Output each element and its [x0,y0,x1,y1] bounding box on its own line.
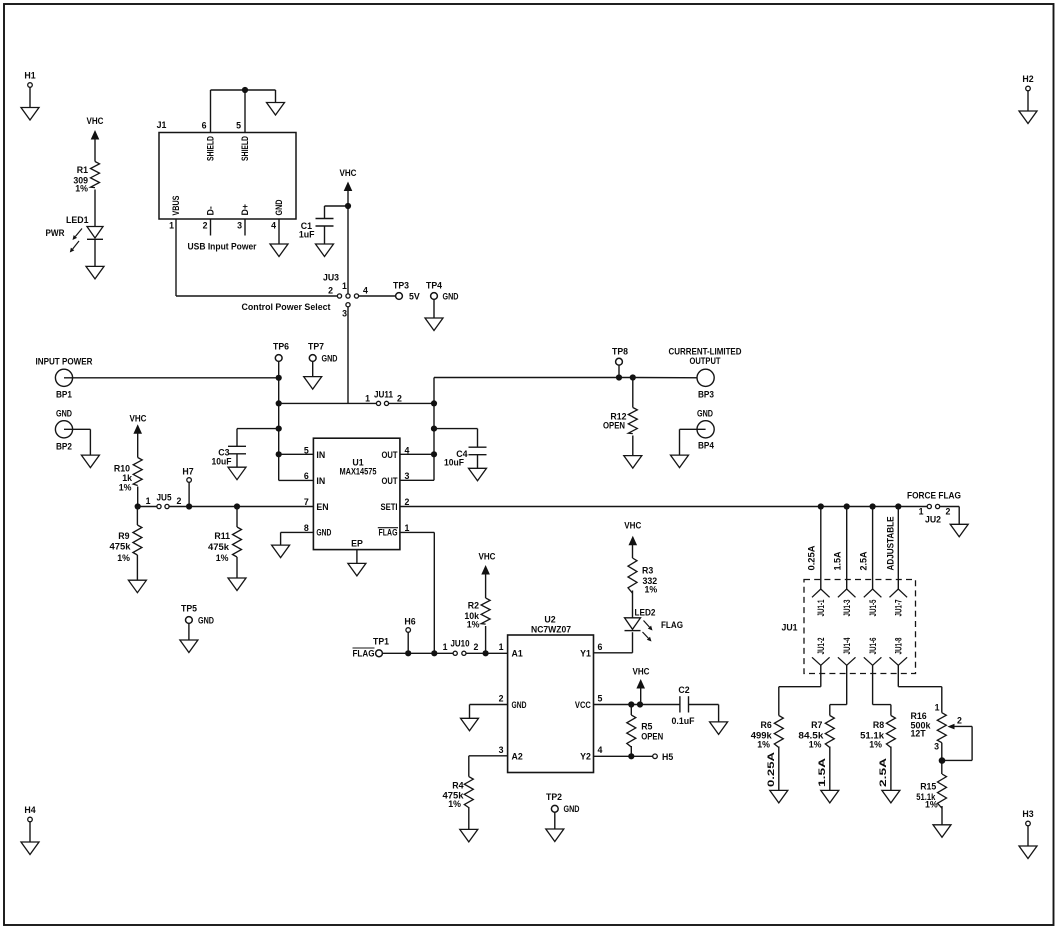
svg-text:0.1uF: 0.1uF [672,716,696,726]
svg-text:H1: H1 [24,71,35,81]
svg-text:TP8: TP8 [612,347,628,357]
svg-text:JU2: JU2 [925,515,941,525]
svg-text:3: 3 [405,471,410,481]
svg-text:H7: H7 [182,467,193,477]
svg-text:JU3: JU3 [323,273,339,283]
svg-text:GND: GND [443,292,459,302]
svg-text:FORCE FLAG: FORCE FLAG [907,491,961,501]
svg-text:H3: H3 [1022,809,1033,819]
svg-text:USB Input Power: USB Input Power [188,242,258,252]
svg-text:R3: R3 [642,566,653,576]
svg-text:JU1-6: JU1-6 [868,637,878,654]
svg-text:1: 1 [169,221,174,231]
svg-text:2: 2 [499,694,504,704]
svg-text:1%: 1% [75,184,88,194]
svg-text:1: 1 [365,394,370,404]
svg-text:OUT: OUT [382,450,399,460]
svg-text:CURRENT-LIMITED: CURRENT-LIMITED [669,347,742,357]
svg-text:2: 2 [397,394,402,404]
svg-text:BP2: BP2 [56,442,72,452]
svg-text:TP2: TP2 [546,792,562,802]
svg-text:SETI: SETI [381,502,398,512]
svg-text:JU1-4: JU1-4 [842,637,852,654]
svg-text:TP5: TP5 [181,604,197,614]
svg-text:1: 1 [342,281,347,291]
svg-text:1%: 1% [467,620,480,630]
svg-text:1.5A: 1.5A [817,757,827,787]
svg-text:FLAG: FLAG [353,649,375,659]
svg-text:VHC: VHC [479,552,497,562]
svg-text:GND: GND [274,200,284,216]
svg-text:2.5A: 2.5A [878,757,888,787]
svg-text:H6: H6 [404,617,415,627]
svg-text:R11: R11 [214,531,230,541]
svg-text:5: 5 [236,121,241,131]
svg-text:R10: R10 [114,464,130,474]
svg-text:1%: 1% [119,483,132,493]
svg-text:6: 6 [202,121,207,131]
svg-text:3: 3 [499,745,504,755]
svg-text:2: 2 [328,286,333,296]
svg-text:IN: IN [316,476,325,486]
svg-text:JU11: JU11 [374,390,393,400]
svg-text:INPUT POWER: INPUT POWER [36,357,94,367]
svg-text:C2: C2 [678,685,689,695]
svg-text:1: 1 [935,703,940,713]
svg-text:JU1-3: JU1-3 [842,599,852,616]
svg-text:5: 5 [598,694,603,704]
svg-text:1%: 1% [645,585,658,595]
svg-text:OUT: OUT [382,476,399,486]
svg-text:2: 2 [203,221,208,231]
svg-text:TP3: TP3 [393,281,409,291]
svg-text:2: 2 [957,716,962,726]
svg-text:JU1-1: JU1-1 [816,599,826,616]
svg-text:10uF: 10uF [212,457,233,467]
svg-text:1%: 1% [757,740,770,750]
svg-text:Y2: Y2 [580,751,591,761]
svg-text:1: 1 [919,507,924,517]
svg-text:OPEN: OPEN [603,421,625,431]
svg-text:JU1-5: JU1-5 [868,599,878,616]
svg-text:1%: 1% [809,740,822,750]
svg-text:1%: 1% [117,553,130,563]
svg-text:1: 1 [443,642,448,652]
svg-text:VHC: VHC [87,116,105,126]
svg-text:1: 1 [146,496,151,506]
svg-text:2.5A: 2.5A [859,551,869,571]
svg-text:12T: 12T [911,729,927,739]
svg-text:5V: 5V [409,292,420,302]
svg-text:10uF: 10uF [444,458,465,468]
svg-text:3: 3 [342,309,347,319]
svg-text:Y1: Y1 [580,649,591,659]
svg-text:VHC: VHC [633,667,651,677]
svg-text:BP3: BP3 [698,390,714,400]
svg-text:EN: EN [316,502,328,512]
svg-text:GND: GND [56,409,72,419]
svg-text:H2: H2 [1022,74,1033,84]
svg-text:1%: 1% [448,799,461,809]
svg-text:R7: R7 [811,720,822,730]
svg-text:VHC: VHC [340,168,358,178]
svg-text:GND: GND [316,528,331,538]
svg-text:VHC: VHC [624,521,642,531]
svg-text:0.25A: 0.25A [766,751,776,787]
svg-text:A2: A2 [512,751,523,761]
svg-text:R5: R5 [641,722,652,732]
svg-text:EP: EP [351,539,363,549]
svg-text:2: 2 [405,497,410,507]
svg-text:6: 6 [598,642,603,652]
svg-text:4: 4 [405,445,410,455]
svg-text:D+: D+ [240,204,250,216]
svg-text:R8: R8 [873,720,884,730]
svg-text:H4: H4 [24,805,35,815]
svg-text:LED1: LED1 [66,215,89,225]
svg-text:VBUS: VBUS [171,195,181,215]
svg-text:4: 4 [598,745,603,755]
svg-text:R15: R15 [920,782,936,792]
svg-text:JU10: JU10 [451,639,470,649]
svg-text:1%: 1% [869,740,882,750]
svg-text:R16: R16 [911,711,927,721]
svg-text:4: 4 [363,286,368,296]
svg-text:JU1-8: JU1-8 [894,637,904,654]
svg-text:JU1: JU1 [782,623,798,633]
svg-text:GND: GND [198,616,214,626]
svg-text:R6: R6 [761,720,772,730]
svg-text:R9: R9 [118,531,129,541]
svg-text:0.25A: 0.25A [807,545,817,571]
svg-text:1: 1 [499,642,504,652]
svg-text:A1: A1 [512,649,523,659]
svg-text:IN: IN [316,450,325,460]
svg-text:3: 3 [237,221,242,231]
svg-text:2: 2 [177,496,182,506]
svg-text:TP4: TP4 [426,281,442,291]
svg-text:1uF: 1uF [299,230,315,240]
svg-text:1.5A: 1.5A [833,551,843,571]
svg-text:D-: D- [206,206,216,215]
svg-text:Control Power Select: Control Power Select [242,302,331,312]
svg-text:7: 7 [304,497,309,507]
svg-text:PWR: PWR [46,228,66,238]
svg-text:SHIELD: SHIELD [206,136,216,161]
svg-text:LED2: LED2 [635,608,656,618]
svg-text:FLAG: FLAG [661,620,683,630]
svg-text:BP1: BP1 [56,390,72,400]
svg-text:OUTPUT: OUTPUT [690,356,722,366]
svg-text:4: 4 [271,221,276,231]
svg-text:VHC: VHC [130,414,148,424]
svg-text:H5: H5 [662,752,673,762]
svg-text:OPEN: OPEN [641,732,663,742]
svg-text:R4: R4 [452,781,463,791]
svg-text:GND: GND [512,700,527,710]
svg-text:6: 6 [304,471,309,481]
svg-text:GND: GND [564,804,580,814]
svg-text:U2: U2 [544,615,555,625]
svg-text:5: 5 [304,445,309,455]
svg-text:1%: 1% [925,800,938,810]
svg-text:1k: 1k [122,473,132,483]
svg-text:1%: 1% [216,553,229,563]
svg-text:TP1: TP1 [373,637,389,647]
svg-text:ADJUSTABLE: ADJUSTABLE [885,516,895,570]
svg-text:SHIELD: SHIELD [240,136,250,161]
svg-text:R2: R2 [468,601,479,611]
svg-text:JU1-2: JU1-2 [816,637,826,654]
svg-text:TP6: TP6 [273,342,289,352]
svg-text:GND: GND [697,409,713,419]
svg-text:GND: GND [322,354,338,364]
svg-text:2: 2 [946,507,951,517]
svg-text:VCC: VCC [575,700,592,710]
svg-text:JU1-7: JU1-7 [894,599,904,616]
svg-text:R1: R1 [77,165,88,175]
svg-text:MAX14575: MAX14575 [340,467,377,477]
svg-text:475k: 475k [208,542,229,552]
svg-text:NC7WZ07: NC7WZ07 [531,625,571,635]
svg-text:JU5: JU5 [157,493,172,503]
svg-text:2: 2 [474,642,479,652]
svg-text:BP4: BP4 [698,441,714,451]
svg-text:3: 3 [934,742,939,752]
svg-text:475k: 475k [110,542,131,552]
svg-text:FLAG: FLAG [379,528,398,538]
svg-text:J1: J1 [157,120,167,130]
svg-text:TP7: TP7 [308,342,324,352]
